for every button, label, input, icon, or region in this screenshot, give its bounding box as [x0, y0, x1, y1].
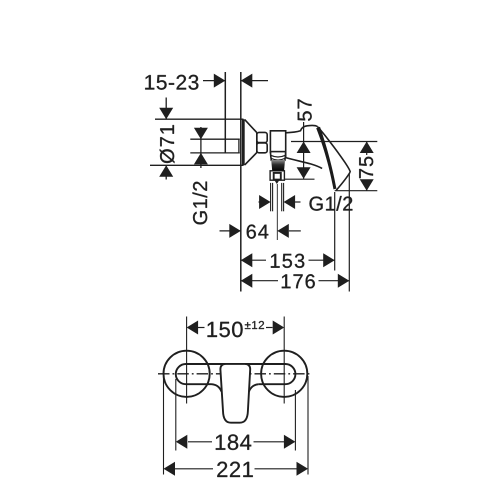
- escutcheon top ext line: [155, 118, 244, 120]
- nut inner square: [274, 173, 281, 180]
- body joint line: [270, 151, 285, 153]
- elbow highlight arcs: [271, 155, 285, 160]
- dim 75 line bottom: [366, 180, 368, 191]
- dim 176: [241, 280, 278, 282]
- wall line inner: [224, 72, 226, 153]
- arrow 15-23 right: [241, 74, 253, 88]
- dim 184: [188, 441, 212, 443]
- dim 15-23 lines: [203, 80, 225, 82]
- label 221: [217, 462, 253, 477]
- dim 150: [198, 327, 205, 329]
- neck ring bottom: [257, 143, 267, 153]
- lever handle: [286, 125, 350, 190]
- pipe inner left: [272, 183, 274, 211]
- 184 ext line right: [294, 390, 296, 451]
- label 153: [271, 254, 304, 268]
- label dia71: [160, 125, 175, 163]
- arrow G12left up: [194, 153, 208, 165]
- handle right ext line: [348, 173, 350, 292]
- handle top outline: [286, 125, 318, 132]
- pipe inner right: [281, 183, 283, 211]
- arrow 15-23 left: [214, 74, 226, 88]
- label 64: [247, 225, 269, 239]
- handle underside: [286, 158, 322, 169]
- outlet centerline: [276, 184, 278, 240]
- label pm12: [245, 321, 264, 329]
- bottom75 line y190.7: [335, 190, 378, 192]
- escutcheon bottom ext line: [150, 164, 244, 166]
- arrow G12left down: [194, 128, 208, 140]
- dia71 dim line: [165, 98, 167, 120]
- nut tip triangle: [275, 181, 280, 185]
- dim 57 line: [303, 122, 305, 179]
- 221 ext line right: [307, 376, 309, 475]
- arrow 75 up: [360, 142, 374, 154]
- escutcheon cone top: [245, 120, 257, 133]
- wall box right edge: [238, 139, 240, 153]
- handle blade: [316, 127, 336, 190]
- elbow dark band: [271, 160, 285, 171]
- arrow 75 down: [360, 179, 374, 191]
- G12 left dim line: [200, 127, 202, 168]
- label 184: [216, 434, 251, 450]
- neck ring top: [257, 132, 267, 142]
- dim 64: [220, 230, 241, 232]
- 150 ext line right: [283, 317, 285, 404]
- label 150: [208, 322, 243, 338]
- handle far edge: [317, 127, 350, 173]
- arrow dia71 bottom: [159, 165, 173, 177]
- bar-lever fillet right: [249, 384, 259, 391]
- arrow 57 down: [297, 167, 311, 179]
- label G12 left: [193, 182, 208, 225]
- escutcheon neck edge: [256, 133, 258, 153]
- escutcheon flange: [242, 119, 245, 165]
- dim 153: [241, 259, 266, 261]
- handle right edge to tip: [336, 172, 350, 190]
- wall line outer: [240, 72, 242, 292]
- 221 ext line left: [163, 376, 165, 475]
- faucet side view: [243, 119, 285, 240]
- dim 75 line top: [366, 142, 368, 156]
- label G12 pipe: [310, 196, 353, 211]
- label 15-23: [145, 75, 198, 90]
- G12 left bottom line: [190, 152, 240, 154]
- arrow 57 up: [297, 142, 311, 154]
- 184 ext line left: [175, 379, 177, 451]
- valve body: [270, 131, 285, 158]
- pipe G12 arrows: [259, 201, 267, 203]
- dim 221: [175, 468, 213, 470]
- 57 bottom ext line: [285, 178, 315, 180]
- label 57: [298, 99, 312, 120]
- arrow dia71 top: [159, 108, 173, 120]
- escutcheon cone bottom: [245, 153, 257, 165]
- bar-lever fillet left: [212, 384, 222, 391]
- label 75: [359, 157, 373, 178]
- body bar: [176, 364, 296, 384]
- 150 ext line left: [186, 317, 188, 404]
- G12 left top line: [190, 138, 240, 140]
- handle tip ext line: [334, 192, 336, 271]
- front lever: [220, 364, 250, 423]
- union circle left: [164, 351, 210, 397]
- hose nut: [270, 171, 284, 180]
- centerline: [158, 373, 312, 375]
- level line y141.5: [291, 141, 377, 143]
- outlet elbow sides: [270, 152, 285, 161]
- pipe outer left: [270, 183, 272, 211]
- union circle right: [261, 351, 307, 397]
- pipe outer right: [283, 183, 285, 211]
- label 176: [282, 274, 315, 288]
